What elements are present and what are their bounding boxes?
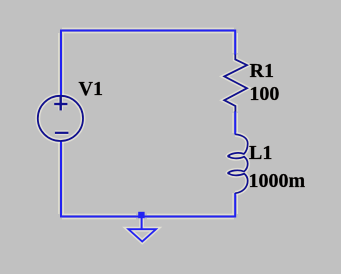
wire right middle <box>234 111 236 134</box>
label L1 <box>249 143 272 163</box>
wire top <box>60 30 236 32</box>
label 100 <box>249 84 279 104</box>
wire left lower <box>60 141 62 218</box>
ground triangle <box>128 229 156 241</box>
wire left upper <box>60 30 62 97</box>
V1 plus sign <box>54 103 67 105</box>
V1 minus sign <box>55 132 69 134</box>
label R1 <box>250 61 274 81</box>
inductor leaf tip dots <box>227 155 230 158</box>
wire right lower <box>234 193 236 218</box>
ground junction square <box>138 212 144 218</box>
decorative component halos (ringing artifact match) <box>38 55 248 242</box>
inductor L1 coil <box>228 134 247 193</box>
label V1 <box>79 79 103 99</box>
voltage source V1 circle <box>38 96 83 141</box>
ground stub <box>141 218 143 229</box>
wire right upper <box>234 30 236 55</box>
resistor R1 zigzag <box>224 55 247 112</box>
wire bottom <box>60 216 236 218</box>
decorative ringing fringes (artifact match) <box>59 28 238 218</box>
label 1000m <box>249 171 306 191</box>
